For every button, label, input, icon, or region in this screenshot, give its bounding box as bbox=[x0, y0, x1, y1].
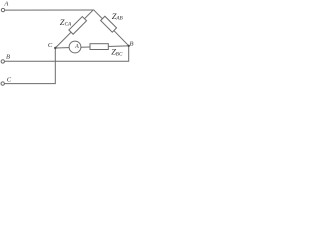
node B junction dot bbox=[128, 45, 130, 47]
impedance Z_AB bbox=[101, 16, 117, 32]
impedance Z_BC bbox=[90, 44, 108, 50]
terminal C bbox=[1, 82, 4, 85]
wire A (phase A line to delta apex) bbox=[5, 9, 94, 11]
impedance Z_CA bbox=[69, 17, 87, 35]
wire C (node C down and left to terminal C) bbox=[4, 48, 55, 84]
svg-text:C: C bbox=[48, 42, 53, 49]
label Z_CA bbox=[60, 17, 72, 28]
terminal A bbox=[1, 8, 4, 11]
node C junction dot bbox=[54, 47, 56, 49]
svg-text:C: C bbox=[7, 77, 12, 84]
wire B (node B down and left to terminal B) bbox=[5, 46, 129, 62]
terminal B bbox=[1, 60, 4, 63]
svg-text:B: B bbox=[6, 54, 10, 61]
svg-text:AB: AB bbox=[115, 15, 123, 21]
label Z_AB bbox=[112, 11, 124, 22]
wire CA diagonal (node C to apex) bbox=[55, 10, 93, 48]
svg-text:BC: BC bbox=[116, 52, 123, 58]
label Z_BC bbox=[111, 47, 123, 58]
svg-text:A: A bbox=[3, 1, 8, 8]
ammeter A bbox=[69, 41, 81, 53]
wire BC bottom branch (node C to node B) bbox=[55, 46, 128, 48]
svg-text:B: B bbox=[130, 41, 134, 48]
svg-text:CA: CA bbox=[65, 22, 72, 28]
svg-text:A: A bbox=[74, 44, 79, 50]
wire AB diagonal (apex to node B) bbox=[94, 10, 129, 46]
